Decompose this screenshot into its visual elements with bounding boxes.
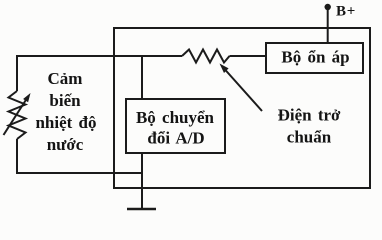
wire (sensor top edge to resistor)	[16, 55, 182, 57]
wire (top wire down to A/D box)	[141, 56, 143, 99]
A/D converter box	[126, 99, 225, 153]
wire (sensor bottom edge to ground wire)	[16, 172, 143, 174]
wire (A/D box down to ground)	[141, 153, 143, 209]
svg-text:Điện trở: Điện trở	[278, 106, 341, 125]
node B+ terminal dot	[325, 4, 331, 10]
outer box (main unit)	[114, 28, 370, 188]
svg-text:Cảm: Cảm	[48, 69, 83, 88]
svg-text:chuẩn: chuẩn	[287, 128, 332, 147]
label sensor box text	[35, 69, 96, 154]
svg-text:Bộ chuyển: Bộ chuyển	[136, 108, 215, 127]
svg-text:biến: biến	[49, 91, 81, 110]
thermistor arrow	[4, 99, 27, 135]
voltage regulator box Bộ ổn áp	[266, 43, 363, 73]
thermistor zigzag on sensor box left edge	[9, 91, 26, 139]
svg-text:B+: B+	[336, 4, 356, 20]
label Điện trở chuẩn	[278, 106, 341, 147]
svg-text:nhiệt độ: nhiệt độ	[35, 113, 96, 132]
wire (resistor to regulator)	[230, 55, 267, 57]
arrow pointing to resistor	[225, 69, 263, 111]
label A/D box text	[136, 108, 215, 148]
resistor zigzag (Điện trở chuẩn)	[182, 50, 230, 63]
svg-text:Bộ ổn áp: Bộ ổn áp	[281, 48, 349, 67]
sensor box Cảm biến nhiệt độ nước	[16, 56, 18, 173]
svg-text:đổi A/D: đổi A/D	[147, 129, 204, 148]
svg-text:nước: nước	[47, 135, 84, 154]
wire (B+ to regulator)	[327, 7, 329, 43]
ground	[127, 208, 156, 210]
